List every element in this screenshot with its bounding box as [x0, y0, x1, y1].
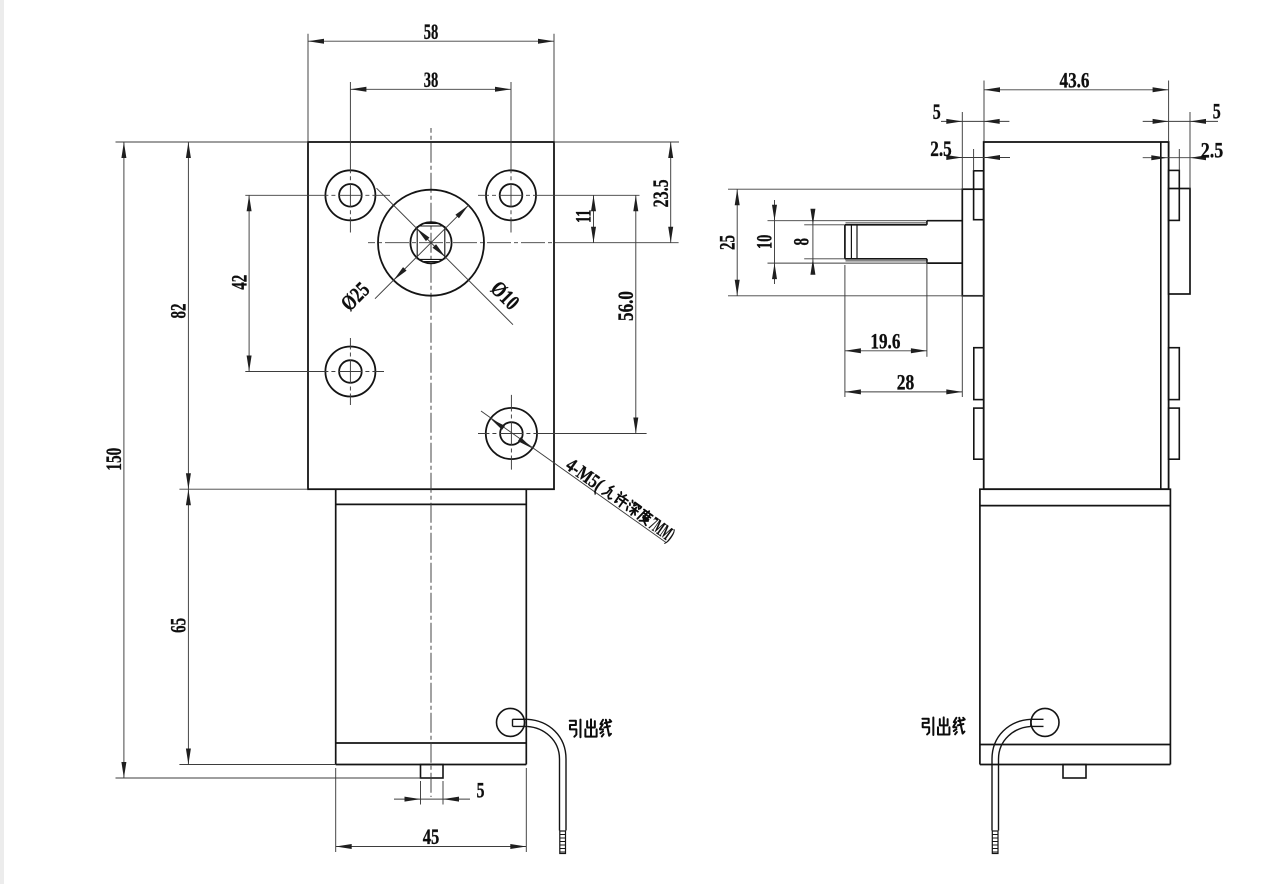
- dimension 42 (hole spacing vertical): [248, 195, 250, 371]
- top-right hole horizontal center line: [478, 194, 556, 196]
- dimension 25 (boss diameter): [728, 188, 962, 190]
- 42 extension line (top): [245, 194, 327, 196]
- wire exit grommet (front view): [497, 708, 525, 736]
- dimension 56.0 (hole to hole vertical): [635, 195, 637, 433]
- svg-text:10: 10: [752, 235, 777, 250]
- mounting hole bottom-right (M5): [486, 408, 537, 459]
- leader Ø10: [377, 188, 514, 325]
- svg-text:42: 42: [226, 275, 251, 290]
- dimension 8 (across flats): [812, 210, 814, 274]
- svg-text:28: 28: [897, 369, 915, 394]
- bottom-right hole vertical center line: [510, 395, 512, 470]
- svg-text:5: 5: [933, 99, 941, 124]
- motor flange and body outline (side view): [980, 489, 1171, 764]
- mounting hole top-left (M5): [325, 170, 375, 220]
- svg-text:56.0: 56.0: [613, 291, 638, 321]
- svg-text:19.6: 19.6: [870, 328, 900, 353]
- svg-text:45: 45: [423, 824, 440, 849]
- leader 4-M5 (allowed depth 7MM): [481, 411, 666, 543]
- dimension 5 (boss protrusion, left): [961, 112, 963, 189]
- dimension 43.6 (housing width): [983, 81, 985, 142]
- svg-text:5: 5: [477, 778, 485, 803]
- dimension 5 (boss protrusion, right): [1189, 112, 1191, 189]
- svg-text:65: 65: [166, 618, 191, 633]
- upper mounting boss (side view, right): [1169, 170, 1180, 220]
- dimension 38 (hole spacing): [350, 88, 511, 90]
- dimension 65 (motor height): [179, 764, 335, 766]
- shaft chamfer tangent line (top): [846, 222, 927, 224]
- bottom-left hole vertical center line: [349, 338, 351, 405]
- horizontal center line through output bore: [368, 242, 556, 244]
- dimension 2.5 (boss protrusion, left): [973, 149, 975, 171]
- bottom-left hole horizontal center line: [327, 371, 384, 373]
- lead wire (side view): [1031, 719, 1044, 726]
- dimension 2.5 (boss protrusion, right): [1178, 149, 1180, 170]
- svg-text:150: 150: [101, 448, 126, 471]
- dimension 11 (hole line to bore center): [593, 195, 595, 242]
- 38 extension line (right): [510, 82, 512, 160]
- output bearing boss Ø25 (side view): [962, 189, 983, 296]
- dimension 23.5 (top edge to bore center): [554, 141, 679, 143]
- dimension 19.6 (flat length): [844, 265, 846, 397]
- svg-text:11: 11: [571, 210, 596, 224]
- output shaft with machined flats (side view): [845, 221, 962, 263]
- svg-text:5: 5: [1213, 99, 1221, 124]
- lower mounting boss 2 (side view, right): [1169, 408, 1180, 459]
- top-left hole horizontal center line: [327, 194, 390, 196]
- svg-text:8: 8: [788, 238, 813, 246]
- lower mounting boss 1 (side view, right): [1169, 348, 1180, 400]
- label 引出线 (lead wire, side view): [922, 718, 933, 735]
- label 引出线 (lead wire, front view): [570, 720, 581, 738]
- dimension 45 (motor width): [335, 768, 337, 852]
- lower mounting boss 1 (side view, left): [974, 348, 984, 400]
- stripped wire end (front view): [560, 831, 566, 854]
- dimension 82 (gearbox height): [179, 488, 308, 490]
- svg-text:43.6: 43.6: [1060, 67, 1090, 92]
- shaft Ø10 silhouette/extension lines: [768, 220, 927, 222]
- 56.0 extension line (bottom): [556, 433, 647, 435]
- dimension 150 (overall height): [116, 141, 309, 143]
- dimension 5 (terminal tab width): [420, 781, 422, 805]
- top-right hole vertical center line: [510, 160, 512, 233]
- svg-text:38: 38: [424, 67, 439, 92]
- gearbox cover plate joint line: [1160, 142, 1162, 489]
- svg-text:58: 58: [424, 19, 439, 44]
- 42 extension line (bottom): [245, 371, 327, 373]
- vertical center line: [430, 128, 432, 797]
- shaft chamfer tangent line (bottom): [846, 260, 927, 262]
- output shaft flats inside Ø10 bore: [417, 224, 445, 262]
- bottom terminal tab (front view): [421, 765, 444, 779]
- lower mounting boss 2 (side view, left): [974, 408, 984, 459]
- bottom terminal tab (side view): [1063, 765, 1086, 779]
- svg-text:4-M5(: 4-M5(: [562, 454, 608, 496]
- wheel hub boss (side view, right): [1169, 189, 1190, 295]
- upper mounting boss (side view, left): [974, 171, 984, 220]
- output boss circle Ø25: [378, 190, 484, 296]
- mounting hole top-right (M5): [486, 170, 536, 220]
- gearbox housing outline (side view): [984, 142, 1169, 489]
- dimension 28 (shaft length): [961, 296, 963, 397]
- gearbox housing outline (front view): [308, 142, 554, 489]
- svg-text:82: 82: [166, 304, 191, 319]
- svg-text:23.5: 23.5: [648, 179, 673, 207]
- lead wire (front view): [513, 719, 528, 726]
- dimension 58 (top width): [307, 34, 309, 141]
- motor flange and body outline: [336, 489, 527, 764]
- leader Ø25: [375, 205, 469, 299]
- wire exit grommet (side view): [1031, 708, 1059, 736]
- svg-text:2.5: 2.5: [930, 136, 952, 161]
- dimension 10 (shaft diameter): [774, 200, 776, 284]
- 38 extension line (left): [349, 82, 351, 160]
- svg-text:Ø10: Ø10: [486, 276, 525, 315]
- bottom-right hole horizontal center line: [478, 433, 556, 435]
- svg-text:2.5: 2.5: [1201, 138, 1224, 163]
- 11 extension line (top): [556, 194, 640, 196]
- svg-text:25: 25: [714, 235, 739, 250]
- svg-text:Ø25: Ø25: [335, 277, 374, 316]
- output shaft bore Ø10: [410, 222, 451, 263]
- mounting hole bottom-left (M5): [325, 347, 375, 397]
- top-left hole vertical center line: [349, 160, 351, 233]
- stripped wire end (side view): [992, 831, 998, 854]
- 23.5/11 extension line (bottom): [556, 242, 679, 244]
